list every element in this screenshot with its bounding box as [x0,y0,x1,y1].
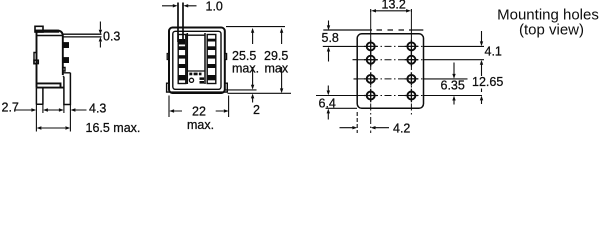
svg-text:22: 22 [192,105,206,119]
front view central window [187,33,205,84]
front view right column slots [207,39,216,81]
dimension 5.8 [328,21,330,62]
svg-text:2: 2 [253,103,260,117]
top view plate outline [357,34,423,109]
dimension line 2.7 / 4.3 [15,109,87,111]
svg-text:4.3: 4.3 [89,102,106,116]
dimension 29.5 line [281,32,283,90]
front view inner body [173,31,221,89]
hole cross ticks [364,40,418,102]
dimension 4.2 [340,127,390,129]
svg-text:6.35: 6.35 [441,79,465,93]
side view pin 2 [63,58,69,63]
dimension line 22 [174,110,224,112]
dimension line 16.5 [42,127,66,129]
svg-text:4.2: 4.2 [393,122,410,136]
front view bottom flange [167,83,228,92]
dimension 4.2 extension lines [356,112,358,133]
top view centerline column 1 [370,11,372,36]
side view right foot [63,73,71,105]
front view outer body [169,28,225,94]
front view tab bottom box [178,39,185,45]
front view center circle [189,78,193,82]
front view central window top edge [187,34,205,36]
top view reference top line [323,29,423,31]
front view center detail top line [187,70,204,72]
svg-text:2.7: 2.7 [2,101,19,115]
svg-text:max: max [265,62,289,76]
svg-text:1.0: 1.0 [206,0,223,14]
front view left slot column [178,35,186,84]
svg-text:5.8: 5.8 [322,31,339,45]
dimension 22 extension lines [169,96,229,118]
dimension 6.4 [327,86,329,120]
side view pin 1 [63,43,69,48]
top view plate bottom left extension [326,107,358,109]
side view left notch box [34,60,38,63]
svg-text:6.4: 6.4 [319,97,336,111]
mounting holes [367,42,416,99]
dimension 1.0 [162,5,197,7]
svg-text:(top view): (top view) [519,22,584,39]
front view center detail marks [189,73,204,84]
dimension 2.7 4.3 extension lines [36,105,70,132]
front view bottom extension lines [225,90,291,93]
top view centerline row 4 [316,95,482,97]
side view bottom double line [37,83,65,87]
front view top tab lines [178,3,183,43]
side view left notch [34,53,37,64]
svg-text:max.: max. [232,62,259,76]
svg-text:12.65: 12.65 [472,75,503,89]
dimension 6.35 [453,63,455,105]
front view right slot column [207,35,216,84]
top view centerline row 2 [353,59,485,61]
front view top extension line [226,26,285,28]
front view right side bump [225,54,227,60]
dimension 12.65 [481,89,483,105]
svg-text:13.2: 13.2 [382,0,406,12]
side view body outline [37,31,63,88]
top view centerline column 2 [410,11,412,36]
dimension 25.5 line [252,32,254,103]
top view centerline row 3 [354,78,468,80]
svg-text:4.1: 4.1 [485,45,502,59]
side view thin plate double line [63,34,102,37]
front view left column slots [178,46,186,80]
side view top tab [35,26,43,32]
svg-text:16.5 max.: 16.5 max. [86,121,141,135]
side view right step [63,68,71,73]
dimension 4.1 [481,31,483,76]
svg-text:max.: max. [187,118,214,132]
front view left side bump [167,54,169,60]
dimension 0.3 leader [99,22,101,48]
dimension 13.2 [371,9,412,12]
side view inner plate line [37,35,63,37]
side view left foot [36,88,43,105]
top view centerline row 1 [323,45,484,47]
side view top band thickening [35,30,59,33]
svg-text:0.3: 0.3 [103,30,120,44]
